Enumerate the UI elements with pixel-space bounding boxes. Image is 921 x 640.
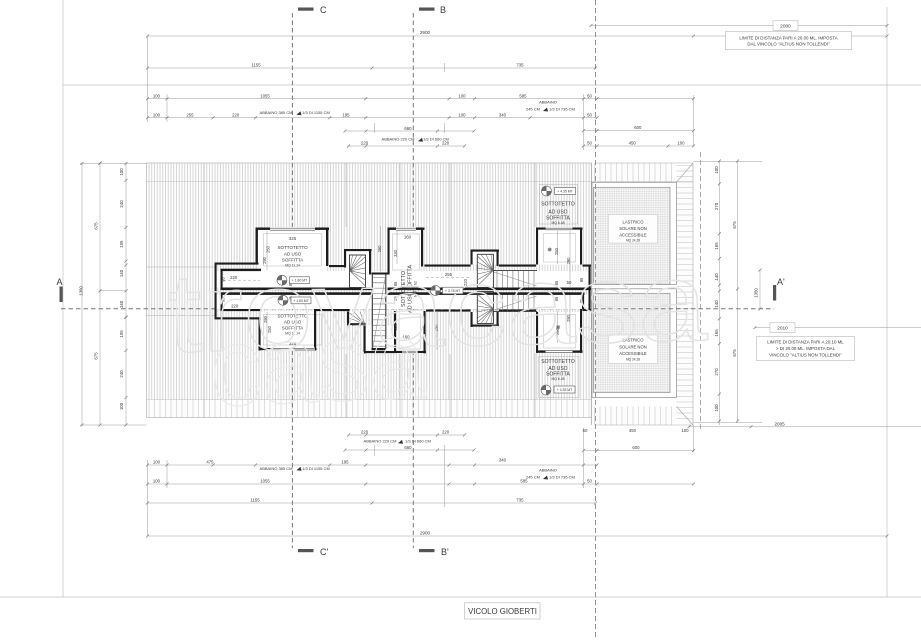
limite box top (726, 31, 852, 49)
right straight stair bottom (493, 310, 537, 312)
svg-text:B: B (440, 5, 446, 15)
center party walls (221, 288, 372, 291)
svg-text:+ 4.35 MT: + 4.35 MT (557, 189, 572, 193)
svg-text:50: 50 (587, 141, 592, 146)
svg-text:340: 340 (499, 458, 507, 463)
left vertical chains (rotated) (79, 166, 759, 412)
svg-text:LIMITE DI DISTANZA PARI A 20.1: LIMITE DI DISTANZA PARI A 20.10 ML (767, 340, 844, 345)
marker B (419, 8, 435, 11)
svg-text:195: 195 (342, 112, 350, 117)
svg-text:2010: 2010 (777, 326, 788, 332)
boundary dashed x=700 (700, 152, 702, 432)
svg-text:C: C (320, 5, 327, 15)
svg-text:735: 735 (516, 498, 524, 503)
svg-text:1/3 DI 660 CM: 1/3 DI 660 CM (423, 137, 449, 142)
center straight stair side walls (372, 275, 386, 349)
svg-text:195: 195 (119, 240, 124, 248)
right stair bay (471, 250, 473, 265)
chimney dots (548, 248, 552, 252)
svg-text:1/3 DI 1155 CM: 1/3 DI 1155 CM (302, 466, 330, 471)
svg-text:VICOLO GIOBERTI: VICOLO GIOBERTI (468, 607, 537, 616)
stair strip bottom cap wall (372, 348, 387, 350)
svg-text:A': A' (777, 277, 785, 287)
svg-text:270: 270 (714, 368, 719, 376)
tick marks (81, 24, 889, 538)
svg-text:1155: 1155 (250, 498, 260, 503)
compass symbols + level boxes (277, 186, 576, 395)
west step + outer wall (215, 263, 259, 265)
lastrico labels (619, 219, 647, 361)
svg-text:ABBAINO 220 CM: ABBAINO 220 CM (382, 137, 415, 142)
svg-text:2900: 2900 (420, 30, 431, 35)
lastrico solare area (591, 163, 693, 425)
property boundary dashed line x=595 (595, 0, 597, 640)
west step bottom (215, 317, 262, 319)
svg-text:1350: 1350 (79, 286, 84, 296)
section A line (61, 308, 774, 310)
top-left bay (256, 228, 330, 230)
marker C' (298, 549, 314, 552)
svg-text:160: 160 (404, 234, 412, 239)
top horizontal dim lines (591, 25, 887, 27)
svg-text:140: 140 (119, 300, 124, 308)
center straight stair treads (372, 278, 386, 347)
svg-text:100: 100 (681, 428, 689, 433)
svg-text:100: 100 (677, 141, 685, 146)
east step bottom (583, 309, 592, 311)
bottom-left bay (259, 317, 261, 350)
svg-text:50: 50 (587, 112, 592, 117)
right bottom winder bay (471, 312, 473, 327)
svg-text:245 CM: 245 CM (526, 475, 540, 480)
center bay (388, 228, 390, 275)
right winder top fan (477, 254, 493, 287)
right-top bay (536, 228, 538, 265)
svg-text:1055: 1055 (260, 479, 270, 484)
watermark trovacasa (166, 239, 709, 430)
svg-text:340: 340 (499, 112, 507, 117)
section B line (412, 13, 414, 548)
svg-text:1055: 1055 (260, 93, 270, 98)
room white fills (217, 230, 589, 351)
notch wall 1 (329, 265, 344, 267)
svg-text:660: 660 (404, 445, 412, 450)
svg-text:2005: 2005 (774, 421, 785, 426)
svg-text:ABBAINO 385 CM: ABBAINO 385 CM (260, 466, 293, 471)
upper corridor left cap + top wall (221, 269, 223, 288)
svg-text:100: 100 (153, 460, 161, 465)
marker B' (419, 549, 435, 552)
stairs (350, 254, 538, 350)
svg-text:675: 675 (94, 352, 99, 360)
marker A (60, 287, 63, 303)
dashed boundary + section lines (57, 0, 786, 640)
svg-text:50: 50 (587, 479, 592, 484)
section C line (291, 13, 293, 548)
left winder top: rect + fan (350, 255, 366, 288)
svg-text:600: 600 (634, 125, 642, 130)
svg-text:ABBAINO 385 CM: ABBAINO 385 CM (260, 110, 293, 115)
svg-text:B': B' (441, 547, 449, 557)
svg-text:1/3 DI 660 CM: 1/3 DI 660 CM (405, 439, 431, 444)
svg-text:735: 735 (516, 63, 524, 68)
svg-text:+ 4.35 MT: + 4.35 MT (557, 388, 572, 392)
svg-text:270: 270 (714, 202, 719, 210)
vicolo gioberti (465, 603, 541, 619)
svg-text:LASTRICO: LASTRICO (623, 219, 645, 224)
svg-text:245 CM: 245 CM (526, 107, 540, 112)
svg-text:140: 140 (119, 269, 124, 277)
svg-text:50: 50 (583, 428, 588, 433)
svg-text:A: A (57, 277, 63, 287)
inner 1.5m dashed rects (264, 184, 580, 397)
lastrico inner rects (591, 163, 693, 425)
svg-text:100: 100 (458, 93, 466, 98)
svg-text:450: 450 (629, 141, 637, 146)
corridor interior dim dash lines (223, 278, 470, 281)
svg-text:C': C' (320, 547, 328, 557)
marker A' (773, 285, 776, 301)
svg-text:195: 195 (119, 330, 124, 338)
svg-text:2000: 2000 (780, 24, 791, 30)
svg-text:220: 220 (361, 430, 369, 435)
lower corridor caps (221, 295, 223, 311)
svg-text:240: 240 (119, 200, 124, 208)
svg-text:240: 240 (119, 370, 124, 378)
svg-text:1350: 1350 (754, 288, 759, 298)
svg-text:195: 195 (341, 460, 349, 465)
svg-text:+ 1.80 MT: + 1.80 MT (293, 299, 308, 303)
svg-text:MQ 6.48: MQ 6.48 (551, 221, 564, 225)
building walls (215, 184, 592, 397)
hatch regions (147, 163, 694, 425)
bottom center bay (394, 311, 396, 351)
svg-text:2900: 2900 (420, 531, 431, 536)
roof edge lines (147, 163, 694, 425)
window gaps (white + thin lines) (270, 227, 573, 354)
svg-text:SOLARE NON: SOLARE NON (619, 226, 646, 231)
svg-text:600: 600 (632, 445, 640, 450)
svg-text:100: 100 (714, 404, 719, 412)
svg-text:VINCOLO "ALTIUS NON TOLLENDI": VINCOLO "ALTIUS NON TOLLENDI" (769, 353, 842, 358)
dimension labels (79, 30, 786, 535)
svg-text:100: 100 (714, 166, 719, 174)
lower corridor bottom wall left (221, 309, 262, 311)
svg-text:LIMITE DI DISTANZA PARI A 20.0: LIMITE DI DISTANZA PARI A 20.00 ML. IMPO… (739, 35, 837, 40)
bottom corridor walls right (426, 310, 471, 312)
marker C (298, 8, 314, 11)
slope arrow marks (297, 108, 549, 480)
svg-text:660: 660 (404, 126, 412, 131)
svg-text:casa: casa (208, 296, 429, 430)
svg-text:475: 475 (206, 460, 214, 465)
svg-text:675: 675 (732, 349, 737, 357)
svg-text:50: 50 (587, 93, 592, 98)
svg-text:ABBAINO: ABBAINO (539, 467, 557, 472)
2000 label box (773, 21, 798, 31)
svg-text:255: 255 (186, 112, 194, 117)
dimension lines (80, 24, 921, 538)
svg-text:ABBAINO 220 CM: ABBAINO 220 CM (364, 439, 397, 444)
svg-text:100: 100 (153, 479, 161, 484)
lastrico label backing boxes (609, 215, 658, 244)
svg-text:100: 100 (119, 402, 124, 410)
svg-text:1155: 1155 (251, 63, 261, 68)
svg-text:220: 220 (232, 112, 240, 117)
svg-text:ABBAINO: ABBAINO (539, 100, 557, 105)
svg-text:MQ 6.48: MQ 6.48 (551, 377, 564, 381)
center stair diagonal (373, 276, 386, 348)
svg-text:140: 140 (714, 300, 719, 308)
vertical chains (147, 36, 149, 122)
big labels / boxes (277, 21, 855, 619)
svg-text:675: 675 (94, 222, 99, 230)
east step + outer (583, 265, 592, 267)
right-bottom bay (536, 312, 538, 353)
right winder bottom fan (477, 292, 493, 324)
svg-text:100: 100 (119, 168, 124, 176)
svg-text:165: 165 (714, 329, 719, 337)
center room (rotated) (401, 265, 418, 313)
svg-text:140: 140 (714, 273, 719, 281)
bottom stair bay (347, 312, 349, 326)
svg-text:1/3 DI 1155 CM: 1/3 DI 1155 CM (302, 110, 330, 115)
svg-text:1/3 DI 735 CM: 1/3 DI 735 CM (549, 475, 575, 480)
svg-text:165: 165 (714, 242, 719, 250)
svg-text:585: 585 (519, 93, 527, 98)
svg-text:100: 100 (153, 112, 161, 117)
room labels (260, 100, 647, 480)
svg-text:450: 450 (629, 428, 637, 433)
left stair bay (344, 249, 372, 251)
bottom-left winder fan (350, 312, 366, 326)
right straight stair top (upper) (493, 270, 537, 272)
svg-text:ACCESSIBILE: ACCESSIBILE (619, 233, 647, 238)
svg-text:+ 3.78 MT: + 3.78 MT (445, 289, 460, 293)
bottom horizontal dim lines (148, 535, 888, 537)
limite box bottom (757, 337, 855, 361)
bottom notch wall (314, 309, 350, 311)
svg-text:675: 675 (732, 221, 737, 229)
svg-text:> DI 20.00 ML. IMPOSTA DAL: > DI 20.00 ML. IMPOSTA DAL (776, 346, 836, 351)
svg-text:+ 1.80 MT: + 1.80 MT (292, 279, 307, 283)
svg-text:220: 220 (361, 140, 369, 145)
roof hatched area main (147, 163, 592, 400)
svg-text:220: 220 (442, 430, 450, 435)
svg-text:1/3 DI 735 CM: 1/3 DI 735 CM (549, 107, 575, 112)
corridor top wall mid-right (425, 265, 471, 267)
svg-text:DAL VINCOLO "ALTIUS NON TOLLEN: DAL VINCOLO "ALTIUS NON TOLLENDI" (747, 42, 830, 47)
svg-text:100: 100 (153, 93, 161, 98)
svg-text:325: 325 (289, 236, 297, 241)
svg-text:SOTTOTETTO: SOTTOTETTO (541, 202, 575, 208)
2010 label box (770, 323, 795, 333)
abbaino labels (260, 100, 575, 480)
svg-text:100: 100 (458, 112, 466, 117)
